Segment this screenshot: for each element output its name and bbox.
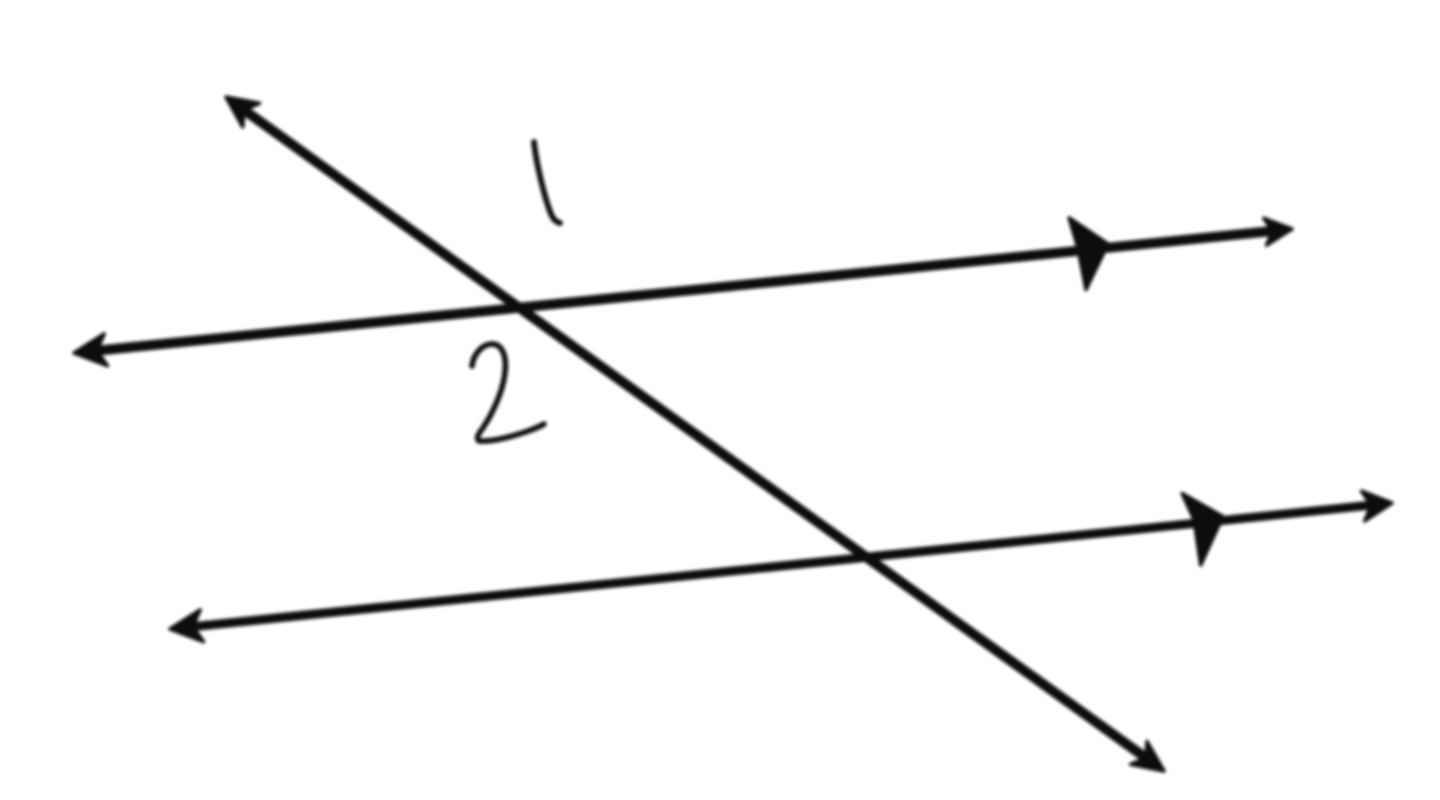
line 1 left arrowhead <box>74 334 108 366</box>
line 2 left arrowhead <box>170 610 204 642</box>
parallel line 1 (upper) <box>86 230 1280 352</box>
transversal arrowhead (lower-right) <box>1131 742 1164 772</box>
transversal line t <box>236 104 1155 764</box>
angle label 2 <box>472 344 544 441</box>
line 1 right arrowhead <box>1264 218 1292 245</box>
line 1 parallel marker <box>1069 218 1108 290</box>
transversal arrowhead (upper-left) <box>226 97 260 127</box>
line 2 right arrowhead <box>1362 491 1392 521</box>
line 2 parallel marker <box>1182 494 1223 566</box>
parallel line 2 (lower) <box>182 504 1380 628</box>
angle label 1 <box>534 142 560 223</box>
